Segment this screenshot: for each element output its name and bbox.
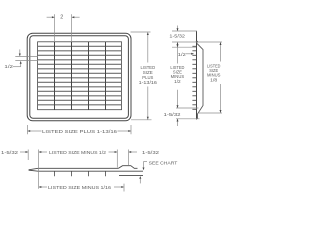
svg-text:1/2: 1/2: [4, 64, 13, 70]
svg-text:2: 2: [60, 15, 63, 21]
svg-text:1-13/16: 1-13/16: [139, 80, 158, 85]
svg-text:1/2: 1/2: [174, 79, 181, 84]
svg-text:1-5/32: 1-5/32: [169, 33, 185, 38]
svg-text:1-5/32: 1-5/32: [142, 150, 160, 155]
svg-text:1/2: 1/2: [178, 52, 187, 57]
svg-text:SEE CHART: SEE CHART: [149, 161, 178, 167]
svg-text:LISTED SIZE MINUS 1/16: LISTED SIZE MINUS 1/16: [48, 185, 111, 191]
svg-text:1/8: 1/8: [210, 77, 218, 82]
svg-text:LISTED SIZE MINUS 1/2: LISTED SIZE MINUS 1/2: [49, 150, 106, 156]
svg-text:1-5/32: 1-5/32: [1, 150, 19, 155]
svg-text:LISTED SIZE PLUS 1-13/16: LISTED SIZE PLUS 1-13/16: [42, 129, 117, 135]
svg-text:1-5/32: 1-5/32: [164, 112, 182, 117]
